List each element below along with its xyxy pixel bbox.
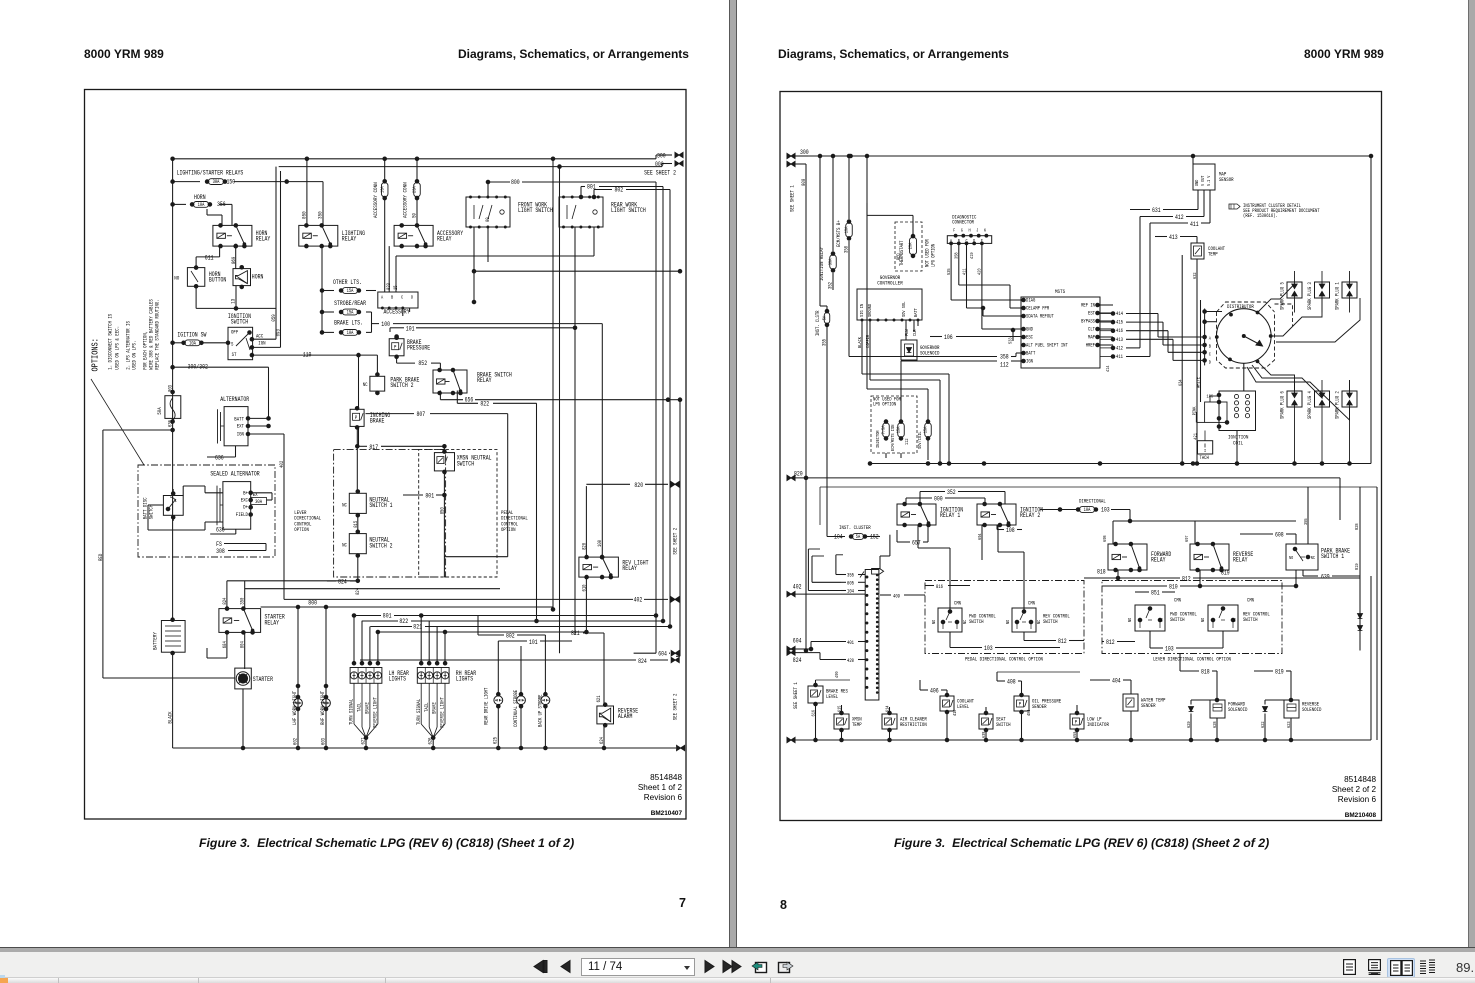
svg-text:800: 800 [511,179,520,186]
connector: RH REAR LIGHTS [417,668,449,684]
svg-text:819: 819 [1354,563,1360,570]
svg-text:BATT: BATT [913,308,919,317]
svg-text:608: 608 [1102,535,1108,542]
svg-text:B+: B+ [243,489,248,496]
solenoid: REVERSE SOLENOID [1284,700,1299,718]
svg-text:NO: NO [1127,618,1133,622]
svg-text:EXC: EXC [241,496,249,503]
toolbar: last-page button [722,958,742,975]
svg-text:103: 103 [984,645,993,652]
wire: horn relay to horn button (611) [219,246,221,257]
option boundary: LEVER DIRECTIONAL CONTROL (dash-dot) [334,449,446,577]
svg-text:USED ON LPS & EEC.: USED ON LPS & EEC. [114,326,121,370]
svg-text:10A: 10A [198,202,206,208]
svg-text:419: 419 [969,252,975,259]
svg-text:800: 800 [308,600,317,607]
svg-text:420: 420 [847,658,854,664]
wire: coil primary links [1195,412,1197,422]
svg-text:C: C [401,295,403,301]
svg-text:SEALED ALTERNATOR: SEALED ALTERNATOR [210,470,259,477]
relay: REVERSE RELAY [1190,544,1229,570]
right scrollbar strip [1468,0,1475,947]
wire 300 from sheet 1 (top left) [787,153,795,158]
svg-text:P: P [1019,701,1021,708]
svg-text:ECM/MSTS B+: ECM/MSTS B+ [835,220,842,247]
svg-text:LPG OPTION: LPG OPTION [873,402,896,408]
sensor: COOLANT TEMP [1191,243,1204,259]
svg-text:BRAKE: BRAKE [370,418,385,425]
wires from diagnostic connector [950,243,952,300]
svg-text:15A: 15A [347,288,355,294]
svg-text:LIGHTING/STARTER RELAYS: LIGHTING/STARTER RELAYS [177,170,244,177]
wire: 634 riser to ground bus [1181,255,1183,464]
svg-text:SWITCH: SWITCH [1243,616,1258,623]
svg-text:RELAY: RELAY [437,236,452,243]
wire: mid riser pair to starter circuit [552,159,554,610]
svg-text:30A: 30A [828,259,834,266]
wire: fuse 30A output to lighting relay [234,181,323,183]
svg-text:USED ON LPS.: USED ON LPS. [131,341,138,370]
wires MSTS right to engine [1098,304,1114,306]
svg-text:822: 822 [399,618,408,625]
connector: LH REAR LIGHTS [350,668,382,684]
svg-text:RHF WORK LIGHT: RHF WORK LIGHT [319,690,326,725]
svg-text:STARTER: STARTER [253,676,273,683]
svg-text:CMN: CMN [954,601,961,607]
svg-text:NC: NC [962,620,968,624]
svg-text:400: 400 [834,671,840,678]
toolbar: next-page button [703,958,715,975]
svg-text:TEMP: TEMP [852,721,862,728]
wire 13: horn circuit return [235,286,237,309]
svg-text:605: 605 [847,580,854,586]
svg-text:409: 409 [893,594,900,600]
relay: BRAKE SWITCH RELAY [433,370,467,393]
wire: sealed alternator to rail links [205,492,223,494]
svg-text:817: 817 [369,444,378,451]
svg-text:411: 411 [961,268,967,275]
svg-text:SEE SHEET 2: SEE SHEET 2 [672,528,679,555]
svg-text:BATT: BATT [1026,351,1035,357]
svg-text:816: 816 [936,584,943,590]
bus 820 (left edge arrow) [787,475,795,480]
svg-text:IGNITION RELAY: IGNITION RELAY [818,246,825,281]
svg-text:614: 614 [885,706,891,712]
toolbar: continuous layout icon [1368,959,1381,975]
svg-text:SWITCH 2: SWITCH 2 [369,542,392,549]
svg-text:350: 350 [317,211,324,219]
svg-text:ACCESSORY CONN: ACCESSORY CONN [402,182,409,218]
svg-text:802: 802 [506,633,515,640]
svg-text:IGITION SW: IGITION SW [177,331,206,338]
svg-text:INST. CLUSTER: INST. CLUSTER [839,524,871,531]
svg-text:IGN: IGN [237,431,244,438]
svg-text:RELAY 2: RELAY 2 [1020,512,1040,519]
svg-text:852: 852 [418,360,427,367]
toolbar: two-up continuous layout icon [1419,959,1436,975]
svg-text:G: G [961,228,963,234]
relay: HORN RELAY [213,225,252,246]
svg-text:30A: 30A [213,179,221,185]
svg-text:820: 820 [634,482,643,489]
svg-text:106: 106 [944,334,953,341]
svg-text:TEMP: TEMP [1208,251,1218,258]
svg-text:822: 822 [480,400,489,407]
svg-text:REAR DRIVE LIGHT: REAR DRIVE LIGHT [483,688,489,725]
svg-text:636: 636 [215,455,224,462]
svg-text:15A: 15A [896,427,902,434]
svg-text:LIGHT SWITCH: LIGHT SWITCH [611,207,646,214]
svg-text:SPARK PLUG 3: SPARK PLUG 3 [1307,282,1313,310]
ground bus (bottom) [173,747,676,749]
svg-text:821: 821 [571,630,580,637]
sensor: WATER TEMP SENDER [1123,694,1138,711]
lamp: CONTINUAL STROBE [517,696,526,705]
svg-text:631: 631 [1152,207,1161,214]
svg-text:RED: RED [896,253,902,260]
wire: relay outputs to control switch CMN terminals [917,525,919,548]
wire: ground bus 000 (top) [279,166,662,168]
svg-text:SWITCH 1: SWITCH 1 [369,502,392,509]
svg-text:REPLACE THE STANDARD ROUTING.: REPLACE THE STANDARD ROUTING. [154,299,161,370]
svg-text:D+: D+ [243,504,248,511]
svg-text:812: 812 [1182,576,1191,583]
fuse 30A (lighting/starter) [173,181,200,183]
wire 000 from sheet 1 [787,161,795,166]
svg-text:10A: 10A [379,186,385,193]
svg-text:SPARK PLUG 2: SPARK PLUG 2 [1335,391,1341,419]
svg-text:PEDAL DIRECTIONAL CONTROL OPTI: PEDAL DIRECTIONAL CONTROL OPTION [965,656,1043,663]
svg-text:358: 358 [1000,354,1009,361]
svg-text:5.1 V: 5.1 V [1206,175,1212,186]
svg-text:K: K [984,228,986,234]
option box: LEVER DIRECTIONAL CONTROL OPTION [1102,581,1282,654]
pointer line from options note to option box [91,379,144,465]
svg-text:H: H [969,228,971,234]
svg-text:LPG OPTION: LPG OPTION [931,244,937,267]
svg-text:112: 112 [904,438,910,445]
svg-text:Sheet 1 of 2: Sheet 1 of 2 [638,783,683,792]
svg-text:10A: 10A [1084,507,1092,513]
svg-text:D: D [1209,359,1211,365]
switch: NEUTRAL SWITCH 2 [349,534,366,554]
sensor: XMSN TEMP [834,714,849,729]
svg-text:SIG IN: SIG IN [859,304,865,317]
svg-text:352: 352 [828,282,834,289]
svg-text:SDATA REFOUT: SDATA REFOUT [1026,314,1054,320]
svg-text:FLW: FLW [904,329,910,336]
svg-text:639: 639 [1321,574,1330,581]
svg-text:355: 355 [847,573,854,579]
svg-text:SWITCH: SWITCH [1170,616,1185,623]
svg-text:NO: NO [174,275,180,282]
svg-text:SWITCH: SWITCH [1043,618,1058,625]
svg-text:SWITCH 1: SWITCH 1 [1321,553,1344,560]
svg-text:20A: 20A [908,243,914,250]
toolbar: next-view button (disabled) [777,958,794,975]
svg-text:FS: FS [216,541,222,548]
relay: FORWARD RELAY [1108,544,1147,570]
wire: work switch drops to accessory bus [473,227,475,302]
svg-text:BATT: BATT [234,415,244,422]
distributor rotor arrow [1244,336,1261,345]
svg-text:FIELD: FIELD [236,511,248,518]
switch: NEUTRAL SWITCH 1 [349,493,366,513]
svg-text:LEVER DIRECTIONAL CONTROL OPTI: LEVER DIRECTIONAL CONTROL OPTION [1153,656,1231,663]
svg-text:RELAY: RELAY [622,565,637,572]
svg-text:300: 300 [657,153,666,160]
svg-text:801: 801 [383,613,392,620]
wire: battery positive RED cable to starter [102,430,104,678]
svg-text:603: 603 [321,738,327,745]
svg-text:812: 812 [1058,638,1067,645]
svg-text:MAP: MAP [1088,335,1095,341]
svg-text:10A: 10A [347,330,355,336]
relay: REV LIGHT RELAY [579,557,619,577]
svg-text:810: 810 [1169,584,1178,591]
svg-text:NO: NO [931,620,937,624]
svg-text:NC: NC [1311,555,1315,561]
svg-text:15A: 15A [347,310,355,316]
wire: accessory relay outputs [402,308,404,316]
svg-text:412: 412 [1175,214,1184,221]
svg-text:DIRECTIONAL: DIRECTIONAL [1079,498,1106,505]
svg-text:SWITCH: SWITCH [148,505,155,520]
wire: 050 drop from bus to lighting relay [306,159,308,226]
work light switch: REAR WORK LIGHT SWITCH [559,197,603,227]
svg-text:402: 402 [634,597,643,604]
svg-text:308: 308 [216,548,225,555]
svg-text:SEE SHEET 2: SEE SHEET 2 [644,170,676,177]
svg-text:ACCESSORY: ACCESSORY [384,309,410,316]
svg-text:STROBE/REAR: STROBE/REAR [334,300,366,307]
svg-text:EXT: EXT [237,423,245,430]
svg-text:BACK UP STROBE: BACK UP STROBE [537,695,543,728]
MSTS right pins [1096,303,1100,307]
svg-text:LEVEL: LEVEL [826,693,838,700]
svg-text:BLACK: BLACK [167,711,174,724]
svg-text:NO: NO [1200,618,1206,622]
svg-text:ESC: ESC [1026,335,1033,341]
svg-text:SEE SHEET 1: SEE SHEET 1 [792,682,799,709]
svg-text:802: 802 [615,187,624,194]
svg-text:A: A [1209,336,1211,342]
wire bundle into cluster connector [835,555,837,575]
svg-text:SENDER: SENDER [1141,702,1156,709]
svg-text:ST: ST [232,351,237,358]
svg-text:(REF. 1530616).: (REF. 1530616). [1243,213,1278,219]
svg-text:59: 59 [411,213,418,218]
svg-text:420: 420 [977,268,983,275]
lamp: RHF WORK LIGHT [325,607,327,748]
svg-text:406: 406 [930,688,939,695]
svg-text:CLR: CLR [912,329,918,336]
wire 800 from starter relay contact [261,606,298,608]
speaker: HORN [233,269,251,286]
bottom toolbar [0,952,1475,977]
svg-text:NC: NC [1159,618,1165,622]
svg-text:SWITCH: SWITCH [969,618,984,625]
svg-text:401: 401 [847,640,854,646]
svg-text:150: 150 [227,178,236,185]
wire 852 brake pressure to brake switch relay [396,357,398,363]
svg-text:PRESSURE: PRESSURE [407,345,430,352]
wire: WHITE riser into coil [1200,300,1202,402]
svg-text:636: 636 [216,527,225,534]
lamp: REAR DRIVE LIGHT [494,696,503,705]
switch: PARK BRAKE SWITCH 2 [370,376,385,391]
svg-text:15A: 15A [923,427,929,434]
svg-text:GND: GND [1026,327,1033,333]
svg-text:INJECTOR: INJECTOR [875,430,881,448]
svg-text:NC: NC [1036,620,1042,624]
svg-text:RELAY: RELAY [256,236,271,243]
svg-text:SPARK PLUG 1: SPARK PLUG 1 [1335,282,1341,310]
svg-text:358: 358 [844,246,850,253]
svg-text:NC: NC [342,542,347,549]
svg-text:SWITCH: SWITCH [231,319,248,326]
svg-text:812: 812 [1106,639,1115,646]
svg-text:659: 659 [1072,732,1078,738]
svg-text:000: 000 [655,161,664,168]
svg-text:GOV SOL: GOV SOL [901,302,907,317]
svg-text:SPARK PLUG 4: SPARK PLUG 4 [1307,391,1313,419]
svg-text:869: 869 [230,257,237,264]
toolbar: previous-view button [751,958,768,975]
svg-text:IGN: IGN [1026,359,1033,365]
wire 408 bus [919,680,921,690]
switch: PARK BRAKE SWITCH 1 [1286,544,1318,570]
toolbar: single-page layout icon [1343,959,1356,975]
wire: starter ground [242,689,244,748]
svg-text:602: 602 [293,738,299,745]
svg-text:CONTROLLER: CONTROLLER [877,280,903,287]
wire: horn fuse to horn relay [219,203,232,205]
node: bus taps on left rail [171,180,175,184]
svg-text:SWITCH 2: SWITCH 2 [390,382,413,389]
svg-text:1. DISCONNECT SWITCH IS: 1. DISCONNECT SWITCH IS [107,314,114,370]
svg-text:BUTTON: BUTTON [209,277,226,284]
svg-text:GND: GND [1194,180,1200,186]
option box: injector fuses (not used for LPG) [871,396,917,453]
svg-text:402: 402 [793,584,802,591]
svg-text:300: 300 [800,149,809,156]
svg-text:ALTERNATOR: ALTERNATOR [220,396,249,403]
svg-text:850: 850 [439,507,445,514]
option box: THERMOSTART (not used for LPG) [895,222,922,271]
svg-text:411: 411 [1116,354,1123,360]
svg-text:00: 00 [485,217,491,222]
svg-text:BATTERY: BATTERY [152,632,159,650]
wire 800/801/802 work light feeds [487,182,489,197]
svg-text:CONNECTOR: CONNECTOR [952,218,974,225]
svg-text:684: 684 [222,641,228,648]
svg-text:13: 13 [230,299,237,304]
svg-text:RELAY: RELAY [477,377,492,384]
svg-text:657: 657 [912,539,921,546]
svg-text:626: 626 [428,738,434,745]
svg-text:S: S [231,340,233,347]
schematic sheet-1 border frame [85,90,687,820]
toolbar: two-page layout icon (selected) [1387,958,1415,978]
svg-text:ALARM: ALARM [618,713,633,720]
svg-text:REF IN: REF IN [1081,303,1095,309]
svg-text:627: 627 [361,738,367,745]
sensor: MAP SENSOR [1193,164,1215,190]
svg-text:P: P [355,414,357,421]
fuse 50A (main) [165,396,181,419]
svg-text:LIGHTS: LIGHTS [389,676,406,683]
sensor: BRAKE RES LEVEL [808,686,823,703]
svg-text:408: 408 [1007,679,1016,686]
svg-text:OPTIONS:: OPTIONS: [90,338,101,371]
svg-text:Sheet 2 of 2: Sheet 2 of 2 [1332,785,1377,794]
svg-text:CMN: CMN [1247,598,1254,604]
svg-text:SENSOR: SENSOR [1219,176,1234,183]
sensor: COOLANT LEVEL [940,696,954,711]
wire: alternator BATT/EXT to 300/302 riser [248,417,269,419]
svg-text:OPTION: OPTION [501,526,516,533]
taskbar sliver [0,977,1475,983]
svg-text:824: 824 [793,657,802,664]
svg-text:352: 352 [947,489,956,496]
svg-text:403: 403 [1026,710,1032,716]
svg-text:RESTRICTION: RESTRICTION [900,721,927,728]
svg-text:621: 621 [596,695,602,702]
wire: front work switch to right riser [474,270,680,272]
svg-text:MSTS: MSTS [1055,288,1066,295]
svg-text:CONTINUAL STROBE: CONTINUAL STROBE [513,690,519,727]
svg-text:SOLENOID: SOLENOID [1302,706,1322,713]
svg-text:RELAY: RELAY [342,236,357,243]
svg-text:NC: NC [342,501,347,508]
switch: IGNITION SWITCH [228,327,253,359]
svg-text:413: 413 [1169,234,1178,241]
wire: right edge riser pair [1376,487,1378,740]
switch: SEAT SWITCH [979,714,993,729]
svg-text:OPTION: OPTION [294,526,309,533]
svg-text:414: 414 [1116,311,1123,317]
solenoid: FORWARD SOLENOID [1210,700,1225,718]
svg-text:411: 411 [1190,221,1199,228]
svg-text:819: 819 [1221,570,1230,577]
lamp: LHF WORK LIGHT [297,607,299,748]
svg-text:100: 100 [381,321,390,328]
bottom ground bus [787,737,795,742]
svg-text:THERMOSTART: THERMOSTART [899,241,905,267]
option boundary: PEDAL DIRECTIONAL CONTROL (dashed) [419,449,497,577]
svg-text:5A: 5A [822,316,828,320]
svg-text:402: 402 [278,461,285,468]
svg-text:LIGHT SWITCH: LIGHT SWITCH [518,207,553,214]
svg-text:CLT: CLT [1088,327,1095,333]
lamp: BACK UP STROBE [541,696,550,705]
svg-text:LIGHTS: LIGHTS [456,676,473,683]
wire: battery feed bus 300 (top) [173,158,656,160]
svg-text:SENDER: SENDER [1032,703,1047,710]
svg-text:656: 656 [465,397,474,404]
svg-text:OTHER LTS.: OTHER LTS. [333,279,362,286]
connector: instrument cluster plug (vertical strip) [872,569,884,575]
svg-text:SOLENOID: SOLENOID [920,349,940,356]
svg-text:804: 804 [240,641,246,648]
svg-text:815: 815 [353,521,359,528]
indicator: LOW LP INDICATOR [1070,714,1084,729]
svg-text:5A: 5A [856,534,861,540]
svg-text:OFF: OFF [231,329,238,336]
relay: IGNITION RELAY 1 [897,504,936,525]
wires into distributor pins [1126,313,1158,315]
